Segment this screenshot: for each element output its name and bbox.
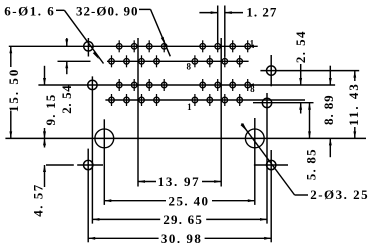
dim 29.65 (92, 212, 267, 227)
svg-text:4. 57: 4. 57 (31, 183, 46, 217)
svg-text:9. 15: 9. 15 (43, 94, 58, 126)
dim 30.98 (88, 231, 271, 246)
svg-text:25. 40: 25. 40 (169, 193, 210, 208)
hole 1.6 mid-left (88, 76, 97, 223)
dim 8.89 (321, 66, 336, 158)
svg-text:1: 1 (187, 102, 193, 112)
pins row 2 right group (pins 5-8) (192, 55, 242, 67)
wire right pin-group centreline (ext for 13.97) (220, 38, 222, 187)
dim 25.40 (104, 193, 255, 208)
svg-text:1. 27: 1. 27 (246, 4, 277, 19)
svg-text:32-Ø0. 90: 32-Ø0. 90 (76, 4, 138, 19)
hole 1.6 bottom-right (267, 150, 276, 242)
wire mid-right shield hole axis line (253, 102, 314, 104)
hole 1.6 bottom-left (84, 149, 93, 243)
svg-text:8: 8 (187, 62, 193, 72)
svg-text:2. 54: 2. 54 (293, 30, 308, 63)
pins row 3 left group (116, 79, 167, 91)
wire row-4 pin axis line (105, 99, 305, 101)
svg-text:15. 50: 15. 50 (6, 68, 21, 113)
pins row 2 left group (109, 55, 160, 67)
pins row 4 left group (109, 94, 160, 106)
wire extension line for 1.27 (row-2 pin) (224, 6, 226, 57)
pins row 3 right group (pins 5-8 lower port) (200, 79, 251, 91)
svg-text:2-Ø3. 25: 2-Ø3. 25 (310, 187, 368, 202)
wire row-2 pin axis line (right segment) (107, 60, 249, 62)
hole 1.6 top-left (84, 38, 93, 57)
wire left pin-group centreline (ext for 13.97) (137, 38, 139, 187)
dim 13.97 (138, 174, 221, 189)
arrow at row-1 last pin (249, 45, 254, 49)
wire bottom shield hole axis line (right) (254, 164, 288, 166)
wire row-1 pin axis line (9, 45, 258, 47)
pins row 1 left group (116, 40, 167, 52)
dim 9.15 (43, 66, 58, 148)
dim 2.54 right (293, 30, 308, 113)
pins row 4 right group (pins 1-4 lower port) (192, 94, 242, 106)
svg-text:13. 97: 13. 97 (158, 174, 201, 189)
wire bottom shield hole axis line (left b) (77, 164, 103, 166)
svg-text:11. 43: 11. 43 (346, 82, 361, 126)
dim 11.43 (346, 71, 361, 139)
svg-text:2. 54: 2. 54 (59, 85, 74, 114)
wire extension line for 1.27 (row-1 pin) (217, 6, 219, 44)
wire upper-right shield hole axis line (260, 70, 359, 72)
dim 2.54 left (59, 38, 74, 114)
dim 1.27 (199, 4, 277, 19)
svg-text:29. 65: 29. 65 (163, 212, 203, 227)
leader 6-1.6 line (56, 10, 104, 63)
leader 2-3.25 line (241, 123, 309, 195)
dim 15.50 (6, 46, 21, 138)
mounting hole 3.25 right (245, 118, 264, 205)
hole 1.6 mid-right (262, 93, 271, 224)
dim 4.57 (31, 128, 46, 217)
wire row-2 pin axis line (left segment) (58, 60, 91, 62)
mounting hole 3.25 left (95, 119, 114, 205)
arrow at row-3 last pin (249, 83, 254, 87)
pins row 1 right group (pins 1-4) (200, 40, 251, 52)
svg-text:30. 98: 30. 98 (161, 231, 203, 246)
svg-text:5. 85: 5. 85 (303, 148, 318, 180)
leader 32-0.90 line (139, 9, 170, 56)
wire bottom shield hole axis line (left a) (46, 164, 74, 166)
svg-text:8. 89: 8. 89 (321, 94, 336, 125)
hole 1.6 top-right (267, 55, 276, 86)
dim 5.85 (303, 103, 318, 181)
wire row-3 pin axis line (38, 84, 335, 86)
svg-text:6-Ø1. 6: 6-Ø1. 6 (4, 4, 55, 19)
wire mounting hole centre line (5, 137, 366, 139)
